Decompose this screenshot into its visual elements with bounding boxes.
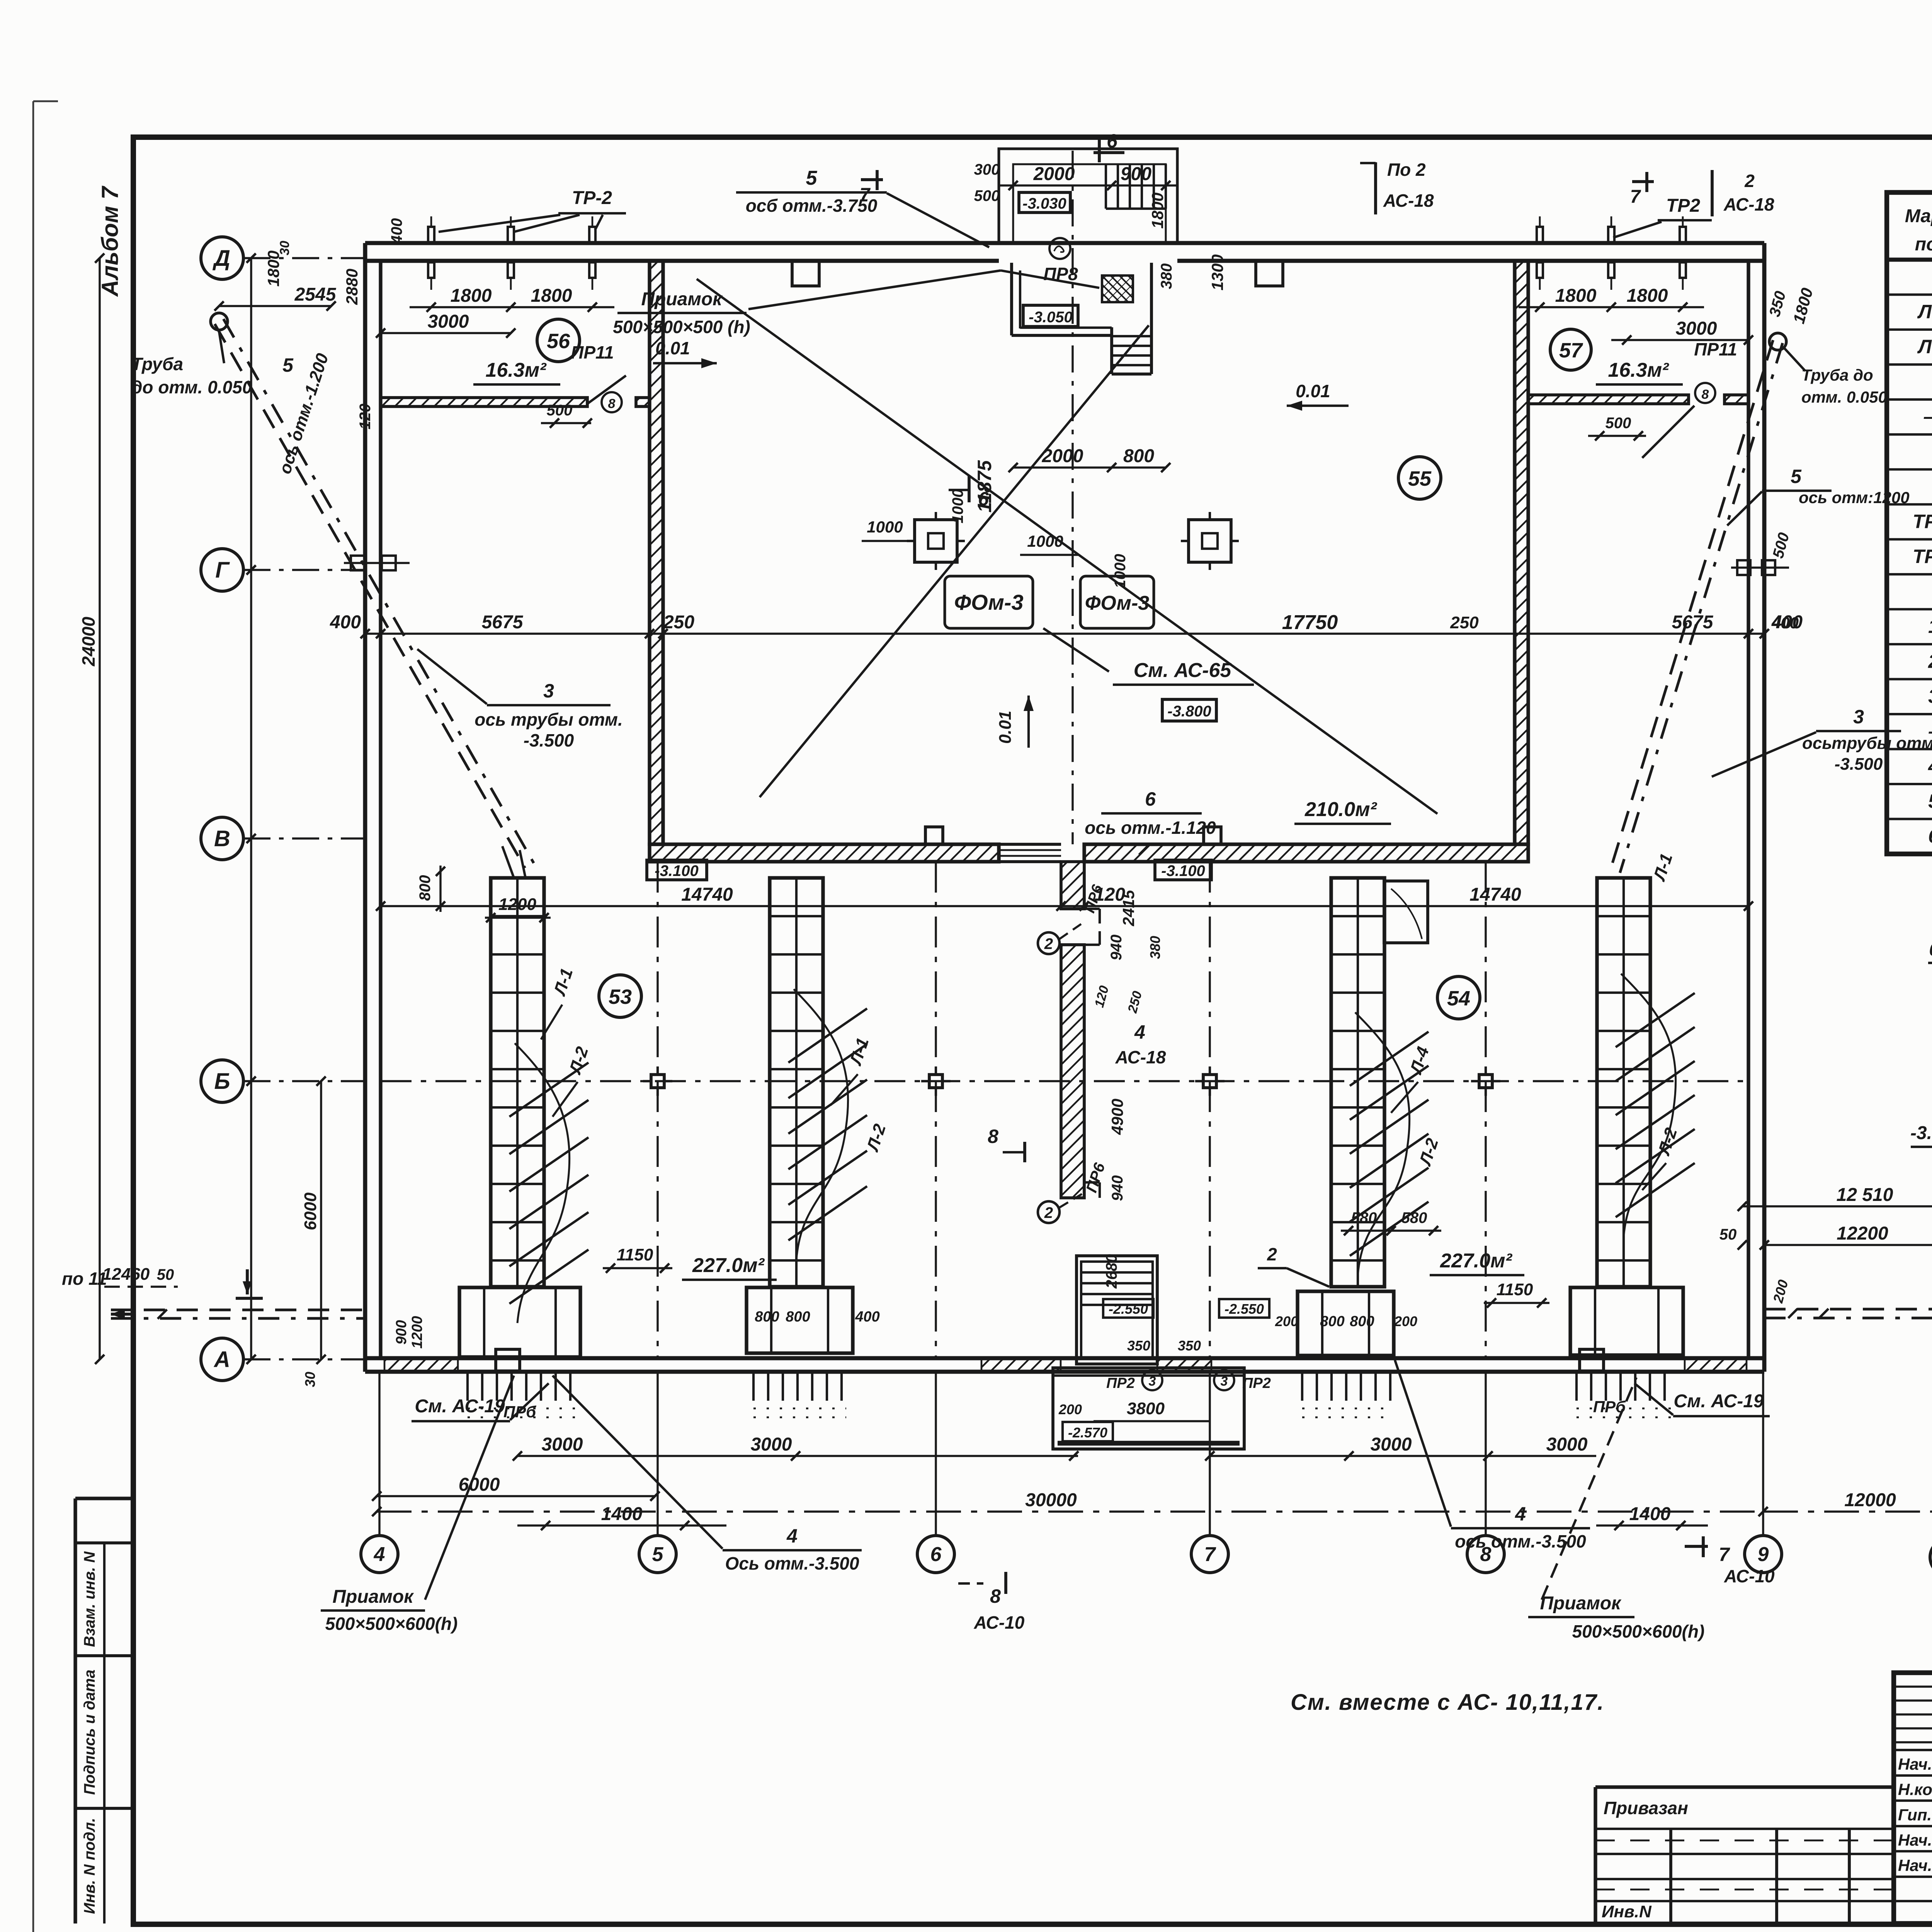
svg-text:2000: 2000	[1033, 164, 1075, 184]
svg-text:50: 50	[1719, 1226, 1737, 1243]
bottom wall hatch segments	[384, 1358, 1747, 1372]
svg-text:400: 400	[388, 218, 405, 245]
svg-text:ТР-2: ТР-2	[572, 188, 612, 208]
dim 500 room57	[1588, 415, 1646, 440]
axis vertical line 7	[1209, 1372, 1211, 1536]
svg-text:Нач.гр.: Нач.гр.	[1898, 1831, 1932, 1849]
cable shaft tower 3 foundation comb	[1302, 1372, 1391, 1417]
svg-text:6: 6	[930, 1543, 942, 1566]
pipe ТР-2 at x=1116	[428, 216, 434, 290]
svg-text:1200: 1200	[498, 895, 536, 914]
bay marker circle 22	[1049, 238, 1070, 259]
label ПРб right	[1593, 1398, 1626, 1416]
svg-text:3000: 3000	[428, 311, 469, 332]
svg-text:500×500×500 (h): 500×500×500 (h)	[613, 317, 750, 337]
svg-text:7: 7	[1204, 1543, 1216, 1566]
svg-text:2: 2	[1044, 935, 1053, 952]
svg-text:1000: 1000	[949, 489, 966, 524]
svg-text:30000: 30000	[1025, 1490, 1077, 1510]
axis line Б	[243, 1080, 365, 1082]
svg-text:3: 3	[1928, 685, 1932, 707]
dim 2545 top left	[214, 284, 337, 311]
svg-text:3: 3	[1221, 1374, 1228, 1389]
spec row 12	[1928, 685, 1932, 707]
pipe ТР-2 at x=1533	[589, 216, 595, 290]
bottom wall А	[365, 1358, 1764, 1372]
svg-text:Взам. инв. N: Взам. инв. N	[81, 1551, 98, 1647]
svg-text:53: 53	[609, 985, 632, 1009]
pit dim 3800	[1058, 1399, 1209, 1421]
svg-text:380: 380	[1147, 936, 1163, 959]
central spine notch bottom	[1084, 1182, 1100, 1198]
label box -2.550 right	[1219, 1299, 1269, 1318]
svg-text:-3.100: -3.100	[655, 862, 698, 879]
dim 1800+1800 top right	[1519, 286, 1704, 312]
pipe left end circle	[211, 313, 228, 330]
dim 1150 right	[1484, 1280, 1549, 1308]
svg-text:8: 8	[1702, 387, 1709, 402]
svg-text:2: 2	[1267, 1244, 1277, 1264]
dim 1800+1800 top left	[410, 286, 614, 312]
foundation ФОм-3 column at 3131	[1181, 512, 1239, 570]
dim 2 callout t3	[1258, 1244, 1329, 1287]
pit note Приямок 500x500x500	[613, 270, 1099, 337]
section mark 6 top	[1094, 130, 1124, 162]
room 56 partition	[381, 398, 650, 406]
А wall pit right ПРб	[1580, 1349, 1604, 1371]
label 5 осб отм -3.750 top	[736, 167, 989, 247]
spec row 15	[1928, 790, 1932, 812]
svg-text:227.0м²: 227.0м²	[1440, 1250, 1513, 1272]
column square axis 3845	[1471, 1066, 1500, 1096]
svg-text:ось отм.-3.500: ось отм.-3.500	[1455, 1531, 1586, 1551]
label box ФОм-3 left	[945, 576, 1033, 628]
svg-text:АС-18: АС-18	[1115, 1047, 1166, 1067]
svg-text:Л-1: Л-1	[1917, 301, 1932, 323]
dim 1200 tower1 top	[485, 895, 551, 922]
dim 6000 left rotated	[301, 1077, 326, 1364]
label Труба до отм.0.050 left	[131, 332, 252, 397]
svg-text:4: 4	[374, 1543, 385, 1566]
svg-text:-3.800: -3.800	[1167, 703, 1211, 720]
label box -3.100 left	[647, 860, 707, 880]
basement pit	[1053, 1368, 1244, 1449]
tower labels Л-1 Л-2 t1	[541, 966, 592, 1117]
svg-text:1000: 1000	[1027, 532, 1063, 550]
interior wall left vertical	[650, 261, 663, 844]
door circle 8 room56	[602, 392, 622, 412]
room circle 54	[1437, 976, 1480, 1019]
svg-text:А: А	[213, 1347, 230, 1372]
label 2 circle bottom	[1038, 1194, 1082, 1223]
svg-text:0.000: 0.000	[1929, 939, 1932, 959]
title block signature row Нач. отд Раменский	[1898, 1753, 1932, 1774]
tower labels t4	[1642, 851, 1681, 1190]
svg-text:1800: 1800	[531, 286, 572, 306]
label ПР6 bottom rotated	[1083, 1161, 1109, 1195]
cable shaft tower 3 cable tray blob	[1350, 1012, 1429, 1275]
svg-text:250: 250	[1450, 613, 1479, 632]
slope arrow 0.01 vertical	[996, 696, 1034, 748]
svg-text:54: 54	[1447, 987, 1470, 1010]
svg-text:АС-18: АС-18	[1383, 190, 1434, 211]
svg-text:2415: 2415	[1119, 890, 1138, 927]
section mark 8 bottom	[958, 1572, 1025, 1633]
svg-text:См. АС-65: См. АС-65	[1134, 659, 1232, 682]
section mark 7 top right	[1630, 172, 1654, 207]
axis circle В	[201, 817, 243, 860]
spec row 10	[1928, 616, 1932, 637]
dim 3000 top right	[1611, 318, 1753, 345]
svg-text:6: 6	[1145, 788, 1156, 810]
svg-text:500: 500	[974, 187, 1000, 204]
dim 2680 rotated spine low	[1103, 1254, 1120, 1289]
spec row 11	[1928, 650, 1932, 672]
svg-text:Инв.N: Инв.N	[1602, 1902, 1652, 1921]
svg-text:800: 800	[755, 1309, 779, 1325]
label 3 ось трубы -3.500 right	[1712, 706, 1932, 777]
central spine wall lower	[1061, 945, 1084, 1198]
svg-text:14740: 14740	[1469, 884, 1521, 905]
svg-text:500: 500	[547, 402, 573, 419]
cable shaft tower 1 cable tray blob	[509, 1043, 588, 1323]
svg-text:-2.550: -2.550	[1225, 1301, 1264, 1317]
axis dash line 8 in lower block	[1485, 862, 1486, 1358]
section level -3.800	[1910, 1123, 1932, 1159]
svg-text:АС-10: АС-10	[1724, 1566, 1775, 1586]
room 57 ПР11	[1694, 339, 1737, 359]
room circle 56	[537, 319, 580, 362]
В wall hatched left part	[650, 844, 999, 862]
svg-text:Г: Г	[215, 558, 230, 583]
dims below А wall left	[0, 0, 0, 0]
label ТР2 top right	[1613, 196, 1712, 238]
svg-text:350: 350	[1178, 1338, 1201, 1354]
label 2 АС-18 top right	[1712, 170, 1774, 216]
title block signature grid	[1894, 1673, 1932, 1923]
label box -3.800	[1162, 699, 1216, 721]
svg-text:поз.: поз.	[1915, 234, 1932, 255]
svg-text:2880: 2880	[343, 269, 361, 305]
svg-text:3: 3	[1853, 706, 1864, 728]
svg-text:1150: 1150	[617, 1245, 653, 1264]
svg-text:3: 3	[543, 680, 554, 702]
svg-text:АС-10: АС-10	[974, 1612, 1025, 1633]
dim 6000 below left	[372, 1475, 660, 1501]
axis line В	[243, 837, 365, 839]
svg-text:7: 7	[1719, 1544, 1730, 1565]
title block signature row Нач.гр. Сацюк	[1898, 1855, 1932, 1875]
privyazan label	[1604, 1798, 1688, 1818]
dim mid chain 400+5675+250+17750+250+5675+400	[330, 612, 1769, 638]
cable shaft tower 3	[1298, 878, 1394, 1355]
spec table grid	[1887, 192, 1932, 854]
label 2 circle top	[1038, 923, 1082, 954]
svg-text:12 510: 12 510	[1837, 1185, 1893, 1205]
В wall open channel segment	[999, 844, 1061, 862]
svg-text:300: 300	[974, 161, 1000, 178]
svg-text:-3.500: -3.500	[524, 730, 574, 750]
svg-text:ФОм-3: ФОм-3	[954, 590, 1023, 614]
svg-text:380: 380	[1158, 264, 1175, 289]
svg-text:3000: 3000	[1546, 1434, 1588, 1455]
svg-text:Марка: Марка	[1905, 206, 1932, 226]
central spine notch top	[1084, 909, 1100, 945]
svg-text:Приамок: Приамок	[641, 289, 723, 310]
stair bay walls	[999, 149, 1177, 243]
svg-text:Труба до: Труба до	[1801, 366, 1873, 384]
dim 580 580 t3	[1341, 1209, 1441, 1235]
section mark 6 bottom	[1085, 788, 1216, 855]
svg-text:АС-18: АС-18	[1723, 194, 1774, 214]
svg-text:Альбом 7: Альбом 7	[97, 185, 123, 297]
svg-text:ФОм-3: ФОм-3	[1085, 592, 1149, 614]
svg-text:Б: Б	[214, 1069, 230, 1094]
pipe right end circle	[1769, 333, 1786, 350]
lower stairs treads	[1081, 1262, 1153, 1305]
svg-text:Ось отм.-3.500: Ось отм.-3.500	[725, 1553, 859, 1573]
svg-text:0.01: 0.01	[655, 338, 690, 358]
section mark 7 АС-10 bottom right	[1685, 1536, 1775, 1586]
svg-text:1800: 1800	[1148, 192, 1167, 228]
svg-text:Привазан: Привазан	[1604, 1798, 1688, 1818]
svg-text:3800: 3800	[1127, 1399, 1165, 1418]
dim rotated top right small	[1766, 286, 1816, 632]
section mark 6 mid	[949, 476, 989, 510]
dim 3000 top left	[376, 311, 515, 338]
svg-text:350: 350	[1127, 1338, 1150, 1354]
label box ФОм-3 right	[1043, 576, 1154, 672]
svg-text:1200: 1200	[409, 1316, 425, 1349]
door circle 8 room57	[1695, 383, 1715, 403]
svg-text:ПР2: ПР2	[1106, 1375, 1135, 1391]
tower 1 top leader lines	[502, 846, 526, 878]
room 56 door swing	[587, 376, 626, 404]
left strip label Подпись и дата	[81, 1670, 98, 1795]
dim 900 1200 left rotated	[393, 1316, 425, 1349]
dim 1000 room55 col	[1020, 532, 1129, 588]
cable shaft tower 1	[459, 878, 580, 1357]
svg-text:отм. 0.050: отм. 0.050	[1801, 388, 1887, 406]
room 57 area label	[1596, 359, 1683, 384]
bay small pit crosshatch	[1102, 276, 1133, 302]
axis vertical line 5	[656, 1372, 658, 1536]
cable shaft tower 4 foundation comb	[1577, 1372, 1677, 1417]
svg-text:5: 5	[652, 1543, 664, 1566]
spec row 16	[1928, 825, 1932, 847]
foundation ФОм-3 column at 2422	[907, 512, 965, 570]
svg-text:7: 7	[1630, 187, 1641, 207]
svg-text:2680: 2680	[1103, 1254, 1120, 1289]
central spine wall upper	[1061, 862, 1084, 909]
svg-text:57: 57	[1559, 339, 1583, 362]
svg-text:ТР-1: ТР-1	[1913, 511, 1932, 532]
dim 3000 3000 below left	[513, 1434, 1078, 1461]
privyazan table	[1595, 1787, 1894, 1923]
svg-text:5: 5	[806, 167, 818, 189]
dim bay 2000+900	[999, 164, 1177, 190]
pipe bottom left horizontal	[111, 1310, 365, 1319]
svg-text:400: 400	[1771, 612, 1803, 633]
dim 940 rotated spine	[1092, 935, 1163, 1015]
axis circle Б	[201, 1060, 243, 1102]
pit note Приямок left bottom	[321, 1376, 514, 1634]
svg-text:8: 8	[608, 396, 616, 411]
slope arrow 0.01 room56 side	[653, 338, 717, 368]
dim 30000 bottom	[372, 1490, 1768, 1516]
svg-text:ПР2: ПР2	[1242, 1375, 1271, 1391]
svg-text:-3.050: -3.050	[1029, 309, 1072, 326]
dim 940 rotated spine low	[1109, 1175, 1126, 1201]
album label: Альбом 7	[97, 185, 123, 297]
label См. АС-19 right	[1634, 1383, 1770, 1416]
svg-text:ТР-2: ТР-2	[1913, 546, 1932, 567]
axis column circle 5	[639, 1536, 676, 1573]
svg-text:-2.570: -2.570	[1068, 1425, 1107, 1440]
dim chain left axis	[247, 253, 256, 1364]
svg-text:ось отм.-1.120: ось отм.-1.120	[1085, 818, 1216, 838]
axis circle А	[201, 1338, 243, 1381]
svg-text:1800: 1800	[451, 286, 492, 306]
svg-text:1300: 1300	[1208, 254, 1226, 290]
svg-text:-3.800: -3.800	[1910, 1123, 1932, 1143]
svg-text:4: 4	[1515, 1503, 1526, 1525]
dim rotated top left small	[264, 218, 405, 430]
svg-text:Д: Д	[212, 246, 230, 271]
slope arrow 0.01 room55	[1287, 381, 1349, 411]
svg-text:В: В	[214, 826, 230, 851]
svg-text:0.01: 0.01	[1296, 381, 1330, 401]
svg-text:400: 400	[330, 612, 361, 633]
spec header Марка поз.	[1905, 206, 1932, 255]
svg-text:30: 30	[302, 1372, 318, 1387]
svg-text:900: 900	[393, 1320, 410, 1344]
svg-text:2: 2	[1928, 650, 1932, 672]
svg-text:6: 6	[978, 488, 989, 510]
svg-text:500: 500	[1605, 415, 1631, 432]
svg-text:ПР11: ПР11	[571, 342, 614, 362]
svg-text:5: 5	[1791, 466, 1802, 487]
left strip label Инв. N подл.	[81, 1818, 98, 1914]
dim 50 right	[1719, 1226, 1747, 1250]
axis column circle 4	[361, 1536, 398, 1573]
wall stub top 2	[1256, 261, 1283, 286]
title block signature row Н.контр Сацюк	[1898, 1779, 1932, 1799]
wall stub В 2	[1204, 827, 1221, 844]
wall pipe symbol right Г	[1731, 560, 1789, 575]
svg-text:Нач.гр.: Нач.гр.	[1898, 1856, 1932, 1874]
svg-text:—: —	[1923, 406, 1932, 427]
axis line Г	[243, 569, 365, 571]
label по 2 АС-18 top	[1360, 160, 1434, 214]
spec row 7	[1913, 511, 1932, 532]
label ПРб left	[503, 1403, 536, 1421]
svg-text:50: 50	[157, 1266, 174, 1283]
А wall pit left ПРб	[496, 1349, 520, 1371]
pipe ТР-2 at x=4170	[1608, 216, 1614, 290]
axis dash line 7 in lower block	[1209, 862, 1211, 1358]
svg-text:500×500×600(h): 500×500×600(h)	[1572, 1621, 1705, 1641]
svg-text:осб отм.-3.750: осб отм.-3.750	[746, 196, 878, 216]
svg-text:1000: 1000	[867, 518, 903, 536]
title block signature row Нач.гр. Кулешова	[1898, 1830, 1932, 1850]
axis dash line 5 in lower block	[656, 862, 658, 1358]
svg-text:1150: 1150	[1497, 1280, 1533, 1299]
tower 3 top annex	[1384, 881, 1428, 943]
dim 2415 rotated spine	[1119, 890, 1138, 927]
label См. АС-65	[1113, 659, 1254, 685]
room55 diagonal 2	[760, 325, 1149, 797]
svg-text:200: 200	[1058, 1401, 1082, 1417]
axis column circle 6	[917, 1536, 954, 1573]
svg-text:940: 940	[1109, 1175, 1126, 1201]
svg-text:2: 2	[1044, 1204, 1053, 1221]
label 5 ось отм.-1.200 left	[276, 351, 332, 476]
dim 12200+260 right	[1760, 1223, 1932, 1250]
svg-text:1800: 1800	[1555, 286, 1597, 306]
cable shaft tower 1 foundation comb	[468, 1372, 576, 1417]
svg-text:ось отм:1200: ось отм:1200	[1799, 488, 1910, 507]
axis vertical line 4	[378, 1372, 380, 1536]
axis vertical line 9	[1762, 1372, 1764, 1536]
pipe ТР-2 at x=3985	[1537, 216, 1543, 290]
label ПР2 right	[1178, 1338, 1271, 1391]
svg-text:Приамок: Приамок	[1540, 1593, 1622, 1614]
axis circle Г	[201, 549, 243, 591]
wall stub top 1	[792, 261, 819, 286]
svg-text:3000: 3000	[751, 1434, 792, 1455]
svg-text:5: 5	[1928, 790, 1932, 812]
dim 4900 rotated spine	[1108, 1099, 1126, 1135]
svg-text:17750: 17750	[1282, 611, 1338, 634]
svg-text:Подпись и дата: Подпись и дата	[81, 1670, 98, 1795]
dim 3000 3000 below right	[1205, 1434, 1596, 1461]
pipe bottom left arrow	[111, 1309, 135, 1320]
lower stairs room	[1077, 1256, 1157, 1364]
label 11875 rotated	[974, 460, 995, 513]
svg-text:Труба: Труба	[131, 354, 183, 374]
svg-text:ПРб: ПРб	[503, 1403, 536, 1421]
top wall	[365, 243, 1764, 261]
tower labels t2	[831, 1036, 889, 1154]
svg-text:См. АС-19: См. АС-19	[415, 1396, 505, 1417]
column square axis 3131	[1195, 1066, 1225, 1096]
dim 12000 bottom	[1763, 1490, 1932, 1516]
column square axis 1702	[643, 1066, 672, 1096]
axis vertical line 6	[935, 1372, 937, 1536]
section mark 7 top left	[860, 170, 883, 205]
svg-text:14740: 14740	[681, 884, 733, 905]
svg-text:4: 4	[1928, 755, 1932, 777]
label по 11 left	[62, 1269, 263, 1298]
svg-text:16.3м²: 16.3м²	[1608, 359, 1670, 381]
label ПР6 spine mid	[0, 0, 0, 0]
dim mid chain right labels	[1450, 612, 1803, 633]
svg-text:200: 200	[1275, 1313, 1298, 1329]
svg-text:Приамок: Приамок	[332, 1587, 414, 1607]
left wall	[365, 243, 381, 1372]
stair bay treads	[1106, 164, 1166, 209]
svg-text:120: 120	[357, 404, 374, 430]
svg-text:900: 900	[1121, 164, 1151, 184]
svg-text:6: 6	[1107, 130, 1118, 152]
svg-text:Нач. отд: Нач. отд	[1898, 1755, 1932, 1773]
pipe bottom right horizontal	[1764, 1308, 1932, 1319]
axis column circle 8	[1467, 1536, 1504, 1573]
bay pit room ПР8	[1012, 263, 1151, 374]
tower labels t3	[1391, 1044, 1442, 1168]
label ТР-2 top left	[439, 188, 626, 232]
